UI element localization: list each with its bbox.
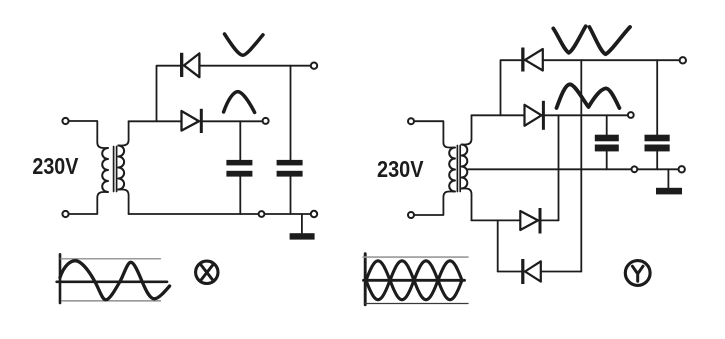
waveform box X: zero axis line [57, 280, 167, 283]
node: output terminal mid-right [263, 118, 269, 124]
wire: center-tap rail [468, 168, 679, 170]
wire: vertical branch up to diode D1 [157, 66, 181, 122]
wire: top input to primary (Y) [414, 121, 455, 147]
wire: D1 to top-right terminal [199, 65, 311, 67]
capacitor C4 [645, 135, 670, 142]
wire: bottom rail [129, 213, 311, 215]
capacitor C2 [277, 160, 303, 166]
node: input terminal top-left [62, 118, 68, 124]
waveform box X: top reference line [60, 258, 161, 260]
transformer T2 core [457, 146, 460, 192]
diode D3 triangle [520, 211, 538, 230]
node: input terminal top-left (Y) [408, 118, 414, 124]
transformer T2 secondary winding [462, 145, 468, 189]
diode D1 triangle [184, 53, 199, 77]
diode D2 cathode bar [200, 109, 203, 133]
wire: secondary top to diode D2 (Y) [472, 114, 525, 116]
node: output terminal on center-tap rail [679, 166, 685, 172]
wire: C2 top stub [290, 66, 292, 160]
transformer T2 primary winding [449, 148, 455, 192]
diode D1 triangle (Y) [525, 49, 543, 71]
diode D4 triangle [525, 261, 541, 281]
transformer T1 core [114, 147, 117, 192]
waveform box Y: bottom reference line [365, 303, 468, 305]
wire: secondary top to diode D2 [129, 120, 182, 122]
wire: C4 bottom stub [656, 151, 658, 169]
wire: primary bottom lead to bottom-left terminal [69, 192, 108, 214]
wire: vertical A from D2 wire down to D3 wire [558, 115, 560, 220]
wire: D1 to top-right terminal (Y) [543, 59, 680, 61]
diode D3 cathode bar [539, 208, 542, 234]
node: output terminal top-right (Y) [680, 57, 686, 63]
waveform box X: bottom reference line [62, 300, 161, 302]
wire: secondary bottom to diode D3 [472, 219, 521, 221]
waveform box X: vertical axis [59, 254, 62, 303]
annotation: VV full-wave waveform [553, 26, 585, 53]
diode D2 triangle (Y) [525, 105, 542, 126]
wire: to diode D4 [498, 271, 521, 273]
ground [290, 233, 315, 239]
diode D2 cathode bar (Y) [542, 101, 545, 130]
svg-text:230V: 230V [377, 156, 424, 182]
annotation: M double-hump waveform [557, 84, 620, 108]
ground (Y) [656, 188, 682, 195]
wire: ground stub [301, 214, 303, 233]
wire: C3 top stub [606, 115, 608, 134]
wire: D2 to mid terminal (Y) [545, 114, 628, 116]
symbol X circled [196, 261, 218, 283]
wire: vertical B from top rail down to D4 wire [580, 60, 582, 271]
waveform box X: sine wave [60, 261, 170, 300]
node: output terminal bottom-right [311, 211, 317, 217]
wire: C3 bottom stub [606, 151, 608, 169]
diode D1 cathode bar [180, 53, 183, 77]
transformer T1 primary winding [102, 148, 108, 192]
node: junction on center-tap rail [632, 166, 638, 172]
wire: secondary bottom lead down [462, 189, 472, 221]
waveform box Y: zero axis line [364, 279, 465, 282]
node: output terminal top-right [311, 62, 317, 68]
wire: C1 top stub [239, 121, 241, 160]
diode D2 triangle [182, 111, 200, 131]
wire: D3 to vertical A [542, 219, 559, 221]
capacitor C3 [595, 135, 619, 142]
annotation: full sine V waveform above D1 [225, 34, 264, 55]
annotation: half-wave hump above D2 [224, 92, 255, 113]
node: input terminal bottom-left (Y) [408, 212, 414, 218]
wire: secondary top lead [118, 121, 128, 145]
wire: top-left input to primary [69, 121, 108, 148]
wire: secondary bottom lead [118, 190, 128, 215]
wire: ground stub (Y) [667, 169, 669, 187]
wire: vertical from D3 wire down to D4 wire [497, 220, 499, 271]
diode D4 anode bar [521, 259, 524, 284]
node: output terminal mid (Y) [628, 112, 634, 118]
waveform box Y: inverted sine wave [366, 261, 462, 300]
wire: C2 bottom stub [290, 177, 292, 214]
node: input terminal bottom-left [62, 211, 68, 217]
wire: D2 to mid output terminal [203, 120, 263, 122]
symbol Y circled [625, 261, 650, 286]
waveform box Y: vertical axis [364, 254, 367, 305]
svg-text:230V: 230V [32, 153, 78, 179]
transformer T1 secondary winding [118, 146, 124, 190]
waveform box Y: sine wave [366, 261, 462, 300]
capacitor C1 [226, 160, 252, 166]
wire: C1 bottom stub [239, 177, 241, 214]
waveform box Y: top reference line [363, 256, 468, 258]
wire: secondary top lead up to D2 level [462, 115, 472, 144]
wire: C4 top stub [656, 60, 658, 134]
wire: primary bottom lead (Y) [414, 192, 455, 216]
node: junction on bottom rail [259, 211, 265, 217]
wire: D4 to vertical B [541, 271, 582, 273]
diode D1 cathode bar (Y) [521, 48, 524, 72]
wire: vertical branch up to diode D1 (Y) [501, 60, 522, 115]
